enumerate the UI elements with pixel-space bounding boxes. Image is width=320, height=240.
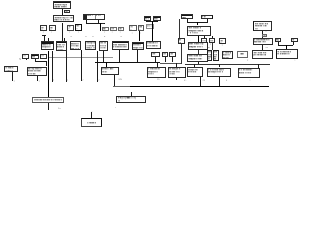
- box SW person: [4, 66, 18, 72]
- box T2 marriage: [64, 10, 70, 14]
- box J2 person: [222, 51, 234, 60]
- wire: [34, 59, 37, 62]
- wire: [261, 45, 264, 51]
- label mark: [51, 32, 52, 34]
- wire: [47, 38, 50, 41]
- wire: [47, 103, 50, 110]
- box child marker 7: [118, 27, 124, 32]
- box T5a husband: [144, 16, 152, 21]
- box LL4 person: [207, 68, 232, 78]
- label mark: [71, 36, 73, 38]
- wire: [154, 57, 157, 62]
- box T6 husband: [181, 14, 193, 19]
- wire: [35, 60, 47, 63]
- label mark: [208, 47, 210, 49]
- wire: [171, 57, 174, 62]
- box T3 descendant: [53, 15, 74, 22]
- wire: [292, 42, 295, 45]
- wire: [193, 64, 196, 67]
- label mark: [210, 44, 211, 46]
- wire: [257, 64, 260, 68]
- box T5c child: [146, 24, 154, 30]
- box T1 ancestor: [53, 1, 71, 9]
- label speck: [83, 54, 84, 56]
- box LL1 person: [147, 67, 167, 78]
- wire: [187, 21, 208, 24]
- label mark: [203, 80, 205, 82]
- label mark: [140, 33, 141, 35]
- box V4 child: [219, 38, 226, 44]
- box m3 child: [40, 54, 47, 59]
- box M person: [252, 50, 273, 59]
- label mark: [82, 80, 83, 82]
- label mark: [53, 80, 54, 82]
- wire: [156, 63, 159, 67]
- box LL3 person: [187, 67, 203, 77]
- box t3 child: [169, 52, 176, 58]
- label mark: [102, 23, 104, 25]
- wire: [136, 50, 139, 62]
- box H main person: [146, 41, 161, 49]
- label mark: [58, 108, 61, 110]
- wire: [61, 23, 64, 42]
- box T4 couple: [83, 14, 106, 20]
- wire: [86, 22, 105, 25]
- box V2 child: [201, 38, 207, 43]
- wire: [197, 22, 198, 25]
- box child marker 1: [40, 25, 47, 31]
- box child marker 8: [129, 25, 137, 31]
- wire thick descent to H: [152, 21, 153, 41]
- wire: [102, 51, 105, 63]
- wire: [146, 20, 158, 23]
- box T7 wife: [201, 15, 213, 19]
- box T5b wife: [153, 16, 161, 21]
- label mark: [121, 36, 123, 38]
- wire: [203, 36, 206, 38]
- wire: [90, 112, 93, 118]
- label mark: [43, 32, 44, 34]
- label mark: [115, 107, 116, 109]
- wire: [25, 59, 28, 61]
- box V1 child: [178, 38, 185, 44]
- box m2 child: [31, 54, 40, 59]
- label mark: [14, 81, 15, 83]
- wire: [36, 76, 39, 81]
- wire: [45, 61, 48, 66]
- label mark: [294, 60, 295, 62]
- wire: [261, 36, 264, 39]
- box K person: [237, 51, 249, 58]
- box A main person: [41, 41, 55, 50]
- box child marker 6: [110, 27, 117, 32]
- label mark: [266, 32, 267, 34]
- label mark: [250, 80, 251, 82]
- wire V1 long descent: [180, 44, 183, 64]
- label mark: [67, 80, 68, 82]
- wire baseline light part: [113, 85, 130, 88]
- wire: [118, 50, 121, 62]
- box W1 family name plate: [32, 97, 64, 104]
- wire: [261, 31, 264, 34]
- wire: [80, 50, 83, 81]
- label mark: [226, 80, 227, 82]
- wire: [96, 51, 99, 82]
- wire: [51, 51, 54, 82]
- label mark: [120, 32, 121, 34]
- label mark: [85, 36, 87, 38]
- label mark: [69, 32, 70, 34]
- label mark: [39, 81, 40, 83]
- box U1 spouse: [275, 38, 282, 43]
- box F main person: [112, 41, 129, 50]
- wire: [277, 42, 280, 45]
- wire: [278, 44, 294, 47]
- wire thick drop into G: [139, 31, 140, 41]
- box T11 person: [253, 38, 273, 45]
- label mark: [92, 36, 94, 38]
- label mark: [266, 47, 268, 49]
- wire: [211, 36, 214, 38]
- box child marker 9: [138, 25, 144, 31]
- box child marker 3: [67, 25, 74, 32]
- wire: [175, 78, 178, 80]
- wire: [218, 64, 221, 68]
- box W3 source note: [81, 118, 102, 127]
- wire sibling line light: [160, 62, 181, 65]
- box LL2 person: [168, 67, 186, 78]
- box B main person: [56, 41, 68, 51]
- box N person: [276, 49, 298, 59]
- label mark: [104, 32, 105, 34]
- wire: [130, 92, 133, 96]
- wire thick drop T10 to I: [198, 36, 199, 42]
- box D main person: [85, 41, 96, 50]
- box X1 child: [207, 50, 213, 61]
- box LL5 person: [238, 68, 261, 78]
- wire faint connector: [49, 56, 114, 59]
- box G main person: [132, 42, 145, 51]
- label mark: [222, 45, 223, 47]
- wire thick descent from T4: [100, 23, 101, 32]
- wire baseline: [130, 86, 269, 87]
- box T8 person: [253, 21, 272, 31]
- box E main person: [99, 41, 108, 51]
- wire: [164, 57, 167, 62]
- wire: [175, 63, 178, 67]
- box child marker 2: [49, 25, 56, 31]
- box T10 child family: [187, 26, 211, 37]
- wire I to I2: [197, 50, 200, 54]
- wire: [43, 35, 46, 41]
- label mark: [247, 60, 248, 62]
- label mark: [202, 44, 203, 46]
- box U2 spouse: [291, 38, 298, 42]
- wire V3 to X pair: [211, 43, 214, 50]
- box child marker 4: [75, 24, 82, 31]
- label speck: [68, 54, 69, 56]
- box LLa person: [27, 67, 48, 77]
- label mark: [98, 80, 99, 82]
- box T9 marriage: [262, 34, 267, 37]
- wire thick descent to W1: [48, 51, 49, 97]
- wire: [199, 77, 202, 85]
- label mark: [132, 33, 133, 35]
- wire: [218, 77, 221, 85]
- wire: [63, 38, 66, 41]
- box t1 child: [151, 52, 160, 58]
- box V3 child: [209, 38, 215, 43]
- wire: [85, 20, 88, 22]
- wire sibling line dark: [95, 62, 160, 63]
- label mark: [119, 79, 122, 81]
- box I2 person: [187, 54, 208, 62]
- box m1 child: [22, 54, 29, 59]
- wire sibling line 2: [185, 63, 270, 66]
- box C main person: [70, 41, 81, 50]
- label mark: [91, 111, 94, 113]
- box child marker 5: [102, 27, 109, 32]
- wire left drop to V1: [178, 19, 181, 38]
- label mark: [112, 32, 113, 34]
- box I person: [188, 42, 208, 50]
- wire: [42, 34, 45, 37]
- wire thick drop to LLc: [106, 62, 107, 67]
- wire: [61, 9, 64, 16]
- box X2 child: [213, 50, 219, 61]
- wire: [186, 19, 189, 23]
- wire: [286, 45, 287, 50]
- label mark: [157, 79, 159, 81]
- label mark: [184, 80, 186, 82]
- box W2 legend: [116, 96, 146, 104]
- box t2 child: [162, 52, 168, 58]
- label speck: [99, 54, 100, 56]
- wire: [97, 20, 100, 22]
- wire: [206, 19, 209, 23]
- label mark: [104, 36, 106, 38]
- label speck: [54, 54, 55, 56]
- wire: [197, 62, 200, 64]
- label mark: [19, 59, 21, 61]
- label mark: [78, 32, 79, 34]
- wire: [113, 75, 116, 86]
- wire: [11, 72, 14, 81]
- box LLc person: [101, 67, 120, 75]
- wire: [65, 51, 68, 82]
